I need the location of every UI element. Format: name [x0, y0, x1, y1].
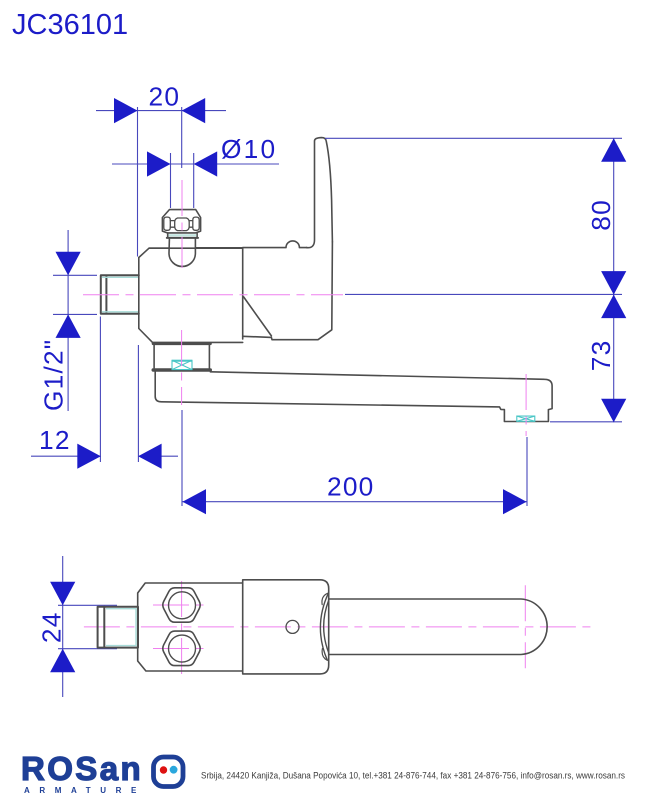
escutcheon [154, 345, 209, 368]
body top edge left of dome [149, 247, 169, 249]
bottom view circle 2 [169, 635, 196, 662]
svg-text:G1/2": G1/2" [39, 339, 69, 411]
svg-text:20: 20 [149, 82, 181, 112]
nut facets [164, 217, 171, 230]
logo icon squircle [154, 757, 184, 787]
dim G1/2 lines [67, 230, 69, 411]
bottom view body block 2 [243, 580, 329, 674]
arrow 24 bottom [50, 649, 75, 673]
dim 80/73 lines [613, 138, 615, 422]
bottom view horizontal centerline [84, 626, 592, 628]
centerline vertical escutcheon [181, 330, 183, 405]
cyan lines inlet [102, 235, 197, 311]
cyan lines bottom inlet [106, 609, 136, 646]
svg-text:Ø10: Ø10 [221, 134, 277, 164]
washer under nut [168, 233, 197, 238]
svg-text:24: 24 [37, 611, 67, 643]
inlet pipe [101, 275, 139, 314]
bottom view lever neck arcs [320, 593, 328, 660]
bottom view vertical centerline body [181, 581, 183, 677]
arrow 24 top [50, 582, 75, 606]
arrow 20 right [182, 98, 206, 123]
dim 24 lines [62, 556, 64, 697]
logo icon red dot [160, 766, 167, 773]
svg-text:ARMATURE: ARMATURE [24, 786, 146, 795]
spout [155, 372, 552, 422]
cyan seal aerator [517, 416, 535, 421]
arrow 20 left [114, 98, 138, 123]
arrow 12 right [138, 444, 162, 469]
svg-text:Srbija, 24420 Kanjiža, Dušana: Srbija, 24420 Kanjiža, Dušana Popovića 1… [201, 770, 625, 780]
bottom view body block 1 [138, 583, 243, 671]
faucet body block [139, 248, 243, 342]
arrow 12 left [77, 444, 101, 469]
svg-text:12: 12 [39, 425, 71, 455]
bottom view hex 1 [163, 588, 200, 622]
body top edge right of dome [196, 247, 243, 249]
svg-text:200: 200 [327, 472, 374, 502]
dome [169, 239, 195, 267]
centerline vertical aerator [525, 374, 527, 436]
svg-text:73: 73 [586, 340, 616, 372]
bottom view small circle [286, 620, 299, 633]
bottom view hex centerlines [153, 605, 210, 649]
bottom view hex 2 [163, 631, 200, 666]
bottom view lever bar [329, 599, 547, 655]
bottom view vertical centerline spout end [524, 585, 526, 668]
arrow 80 top [601, 138, 626, 162]
cap nut [162, 210, 200, 233]
arrow G1/2 top [56, 252, 81, 275]
arrow O10 left [147, 151, 171, 176]
svg-text:80: 80 [586, 199, 616, 231]
centerline horizontal side view [83, 294, 343, 296]
arrow 80 bottom [601, 271, 626, 295]
dim Ø10 lines [112, 163, 279, 165]
dim 12 lines [31, 455, 178, 457]
dim 200 lines [182, 501, 527, 503]
bottom view inlet thread [98, 607, 138, 648]
arrow 200 left [183, 489, 207, 514]
arrow 73 bottom [601, 399, 626, 423]
arrow O10 right [194, 151, 218, 176]
arrow 200 right [503, 489, 527, 514]
svg-text:ROSan: ROSan [21, 750, 143, 787]
handle skirt [243, 242, 333, 340]
centerline vertical screw [181, 180, 183, 268]
bottom view circle 1 [169, 592, 196, 619]
cyan seal escutcheon [172, 360, 192, 369]
arrowheads [50, 98, 626, 672]
handle blade [307, 138, 333, 248]
arrow G1/2 bottom [56, 314, 81, 338]
svg-text:JC36101: JC36101 [12, 9, 128, 41]
logo icon blue dot [170, 766, 178, 774]
dim 20 lines [96, 110, 226, 112]
arrow 73 top [601, 295, 626, 319]
handle top edge with bump [243, 241, 307, 248]
